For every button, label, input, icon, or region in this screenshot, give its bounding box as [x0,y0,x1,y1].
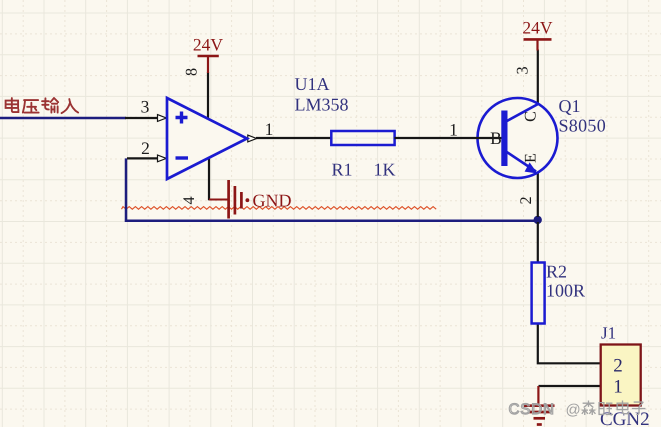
svg-text:2: 2 [517,196,535,204]
svg-text:C: C [522,111,540,122]
svg-text:R2: R2 [546,262,567,282]
svg-text:24V: 24V [522,18,553,38]
svg-text:CGN2: CGN2 [600,409,650,427]
svg-text:3: 3 [141,97,150,117]
svg-text:S8050: S8050 [559,116,607,136]
svg-text:1: 1 [449,120,458,140]
svg-text:2: 2 [613,356,623,377]
svg-text:J1: J1 [601,324,616,343]
svg-text:3: 3 [514,66,532,74]
svg-text:4: 4 [180,196,198,204]
svg-text:B: B [490,128,502,148]
svg-text:@: @ [566,402,581,419]
svg-text:100R: 100R [546,281,585,301]
svg-text:2: 2 [141,138,150,158]
svg-text:Q1: Q1 [559,96,581,116]
svg-text:U1A: U1A [295,74,330,94]
svg-text:E: E [522,153,540,163]
svg-text:1K: 1K [374,160,396,180]
svg-text:8: 8 [183,68,201,76]
svg-text:CSDN: CSDN [509,401,555,418]
svg-text:24V: 24V [193,35,224,55]
svg-text:1: 1 [265,119,274,139]
svg-text:GND: GND [253,191,292,211]
svg-text:R1: R1 [332,160,353,180]
svg-text:LM358: LM358 [295,95,349,115]
svg-text:1: 1 [613,377,623,398]
